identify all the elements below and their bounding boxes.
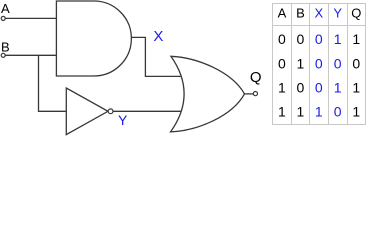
output terminal Q xyxy=(253,92,257,96)
svg-text:1: 1 xyxy=(352,103,360,119)
input terminal B xyxy=(1,53,5,57)
svg-text:Q: Q xyxy=(250,69,262,86)
svg-text:0: 0 xyxy=(334,103,342,119)
AND gate U1 xyxy=(56,1,131,76)
svg-text:1: 1 xyxy=(334,79,342,95)
svg-text:X: X xyxy=(153,28,163,45)
NOT gate (inverter) triangle xyxy=(66,88,108,135)
wire X: AND output to OR upper input xyxy=(131,37,181,76)
truth table row 2 : A=0 B=1 X=0 Y=0 Q=0 xyxy=(278,55,360,71)
svg-text:X: X xyxy=(314,5,323,20)
wire OR output xyxy=(245,93,254,95)
svg-text:A: A xyxy=(278,5,287,20)
svg-text:0: 0 xyxy=(297,79,305,95)
truth table header row xyxy=(278,5,362,20)
input terminal A xyxy=(1,16,5,20)
svg-text:B: B xyxy=(1,40,10,55)
wire A to AND input xyxy=(5,17,56,19)
wire B branch down to NOT input (junction at x=38.5) xyxy=(39,55,67,111)
svg-text:1: 1 xyxy=(278,79,286,95)
svg-text:Q: Q xyxy=(351,5,361,20)
svg-text:0: 0 xyxy=(315,79,323,95)
truth table row 1 : A=0 B=0 X=0 Y=1 Q=1 xyxy=(278,31,360,47)
svg-text:0: 0 xyxy=(315,55,323,71)
truth table row 4 : A=1 B=1 X=1 Y=0 Q=1 xyxy=(278,103,360,119)
svg-text:0: 0 xyxy=(278,31,286,47)
svg-text:0: 0 xyxy=(334,55,342,71)
svg-text:1: 1 xyxy=(297,103,305,119)
svg-text:B: B xyxy=(296,5,305,20)
svg-text:1: 1 xyxy=(297,55,305,71)
svg-text:1: 1 xyxy=(334,31,342,47)
svg-text:Y: Y xyxy=(333,5,342,20)
svg-text:0: 0 xyxy=(352,55,360,71)
OR gate xyxy=(171,56,245,132)
truth table row 3 : A=1 B=0 X=0 Y=1 Q=1 xyxy=(278,79,360,95)
svg-text:0: 0 xyxy=(297,31,305,47)
svg-text:0: 0 xyxy=(278,55,286,71)
svg-text:1: 1 xyxy=(352,79,360,95)
svg-text:1: 1 xyxy=(352,31,360,47)
wire Y: NOT output to OR lower input xyxy=(113,110,181,112)
wire B to AND input xyxy=(5,54,56,56)
svg-text:1: 1 xyxy=(278,103,286,119)
svg-text:Y: Y xyxy=(118,112,128,128)
svg-text:1: 1 xyxy=(315,103,323,119)
svg-text:A: A xyxy=(1,1,10,16)
truth table grid xyxy=(273,4,366,125)
NOT gate bubble xyxy=(108,109,113,114)
svg-text:0: 0 xyxy=(315,31,323,47)
